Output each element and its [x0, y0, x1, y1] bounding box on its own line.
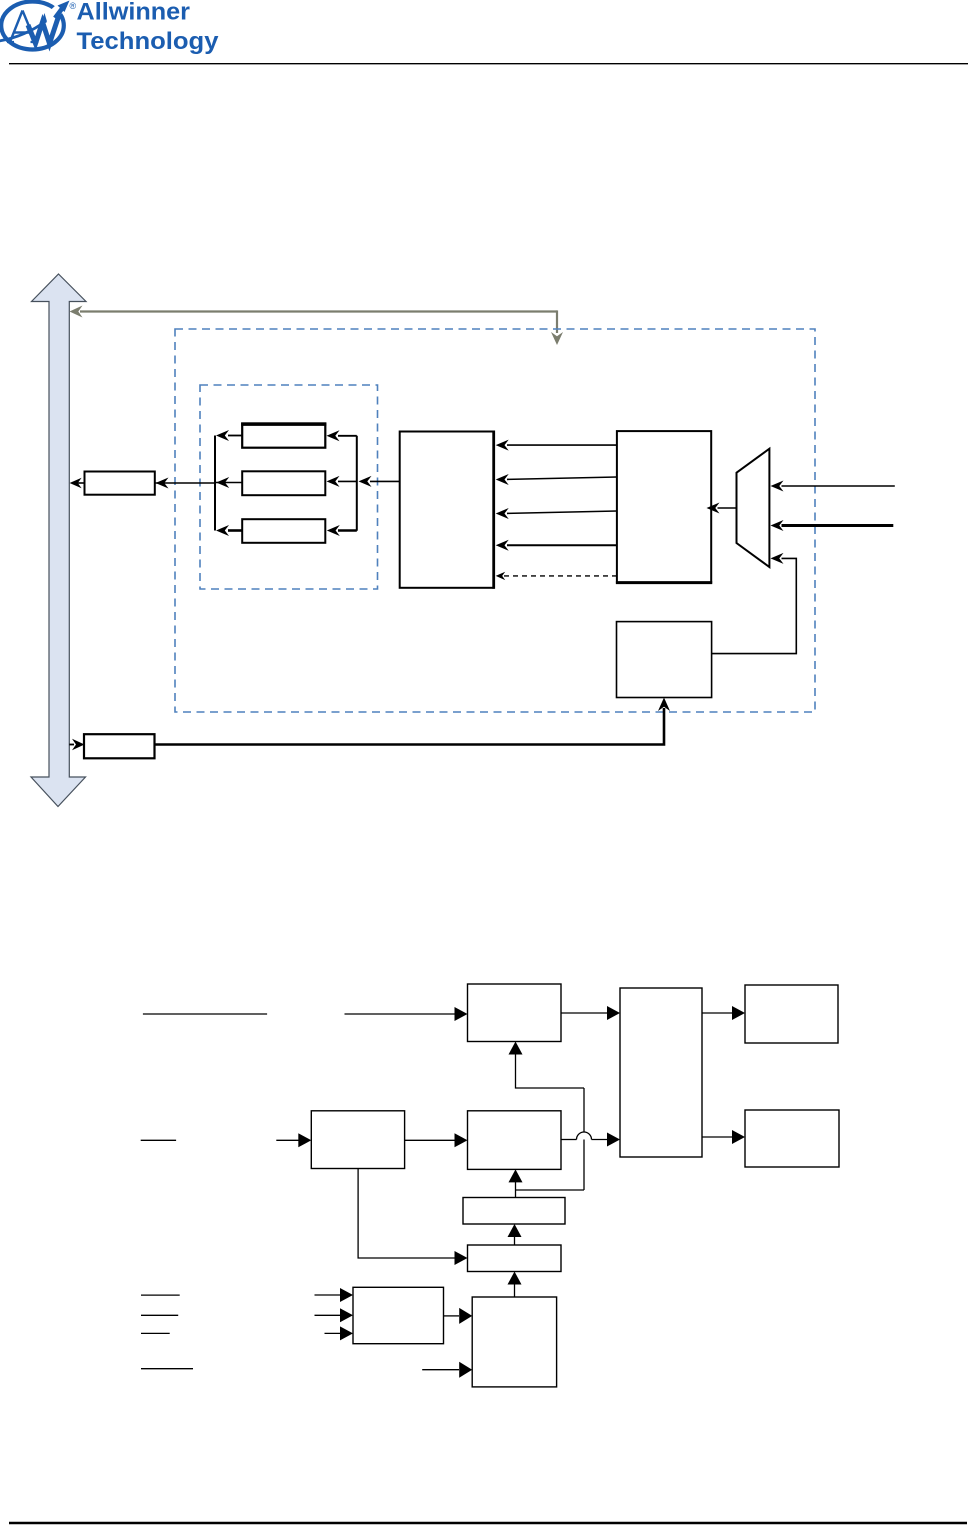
wire B8 to BB — [514, 1283, 516, 1297]
input combiner box B7 — [353, 1287, 444, 1343]
wire right bus to row3 rect — [338, 529, 357, 532]
system bus vertical double arrow — [31, 274, 86, 807]
interface register block (left) — [85, 472, 155, 495]
wire U2 to U1 line 2 — [507, 477, 617, 479]
wire big-rect to right bus to row2 rect — [370, 480, 400, 482]
wire B4 to B5 — [702, 1012, 733, 1014]
wire lower input into B8 — [422, 1369, 459, 1371]
stub wire mid left — [141, 1139, 176, 1141]
stub wire group left 1 — [141, 1294, 180, 1296]
wire row3 rect to left bus — [228, 529, 242, 532]
wire B1 to B4 — [561, 1012, 608, 1014]
inner dashed sub-module boundary — [200, 385, 378, 589]
right bus line of sub-module — [356, 436, 358, 531]
wire into B1 — [345, 1013, 456, 1015]
header rule — [9, 63, 968, 65]
clock generator block — [617, 622, 712, 698]
svg-text:Allwinner: Allwinner — [77, 0, 191, 26]
stub wire group left 3 — [141, 1332, 170, 1334]
wire system bus to bottom block — [69, 744, 74, 746]
footer rule — [9, 1522, 967, 1525]
wire from interface block to system bus — [74, 482, 85, 484]
wire external input 1 to mux — [782, 485, 895, 487]
stub wire group left 4 — [141, 1368, 193, 1370]
data register block U2 — [617, 431, 711, 582]
feedback wire top into B1 — [516, 1053, 585, 1088]
wire B3 to B4 with hop — [561, 1139, 577, 1141]
wire U2 to U1 line 3 — [507, 511, 617, 513]
output box B5 — [745, 985, 838, 1043]
thick wire bottom block to clock generator — [155, 708, 665, 745]
wire U2 to U1 line 4 — [507, 544, 617, 546]
svg-text:®: ® — [70, 1, 77, 11]
stub wire group left 2 — [141, 1314, 178, 1316]
wire into B2 — [276, 1139, 299, 1141]
gray bus-access wire with arrows — [80, 310, 557, 312]
wire input b into B7 — [315, 1314, 342, 1316]
bus interface small block (bottom) — [84, 734, 155, 758]
wire external input 2 to mux (thick) — [782, 524, 894, 527]
stub wire top left — [143, 1013, 267, 1015]
wire B2 down to BB — [358, 1169, 455, 1259]
wire row1 rect to left bus — [228, 435, 242, 437]
wire input c into B7 — [325, 1332, 342, 1334]
wire U2 to U1 line 1 — [507, 444, 617, 446]
lower diagram: stage box B1 — [468, 984, 562, 1042]
dashed wire U2 to U1 line 5 — [504, 575, 617, 577]
outer dashed module boundary — [175, 329, 815, 712]
wire B7 to B8 — [444, 1315, 460, 1317]
output box B6 — [745, 1110, 839, 1167]
control logic block U1 — [400, 432, 494, 588]
input mux (trapezoid) — [737, 449, 770, 567]
feedback wire bottom joint — [516, 1189, 585, 1191]
tall mixer box B4 — [620, 988, 702, 1157]
wire clock block to mux input 3 — [712, 558, 797, 653]
stage box B3 — [468, 1111, 562, 1170]
wire mux output to U2 — [718, 507, 737, 509]
thin box BA — [463, 1198, 565, 1225]
feedback wire vertical x584 — [583, 1088, 585, 1190]
fifo buffer row 2 — [242, 471, 325, 495]
thin box BB — [468, 1245, 562, 1272]
fifo buffer row 3 — [242, 519, 325, 543]
wire B2 to B3 — [405, 1139, 455, 1141]
wire B4 to B6 — [702, 1136, 733, 1138]
wire BA to B3 — [515, 1180, 517, 1198]
fifo buffer row 1 — [242, 423, 325, 447]
svg-text:Technology: Technology — [77, 28, 219, 55]
wire BB to BA — [514, 1236, 516, 1245]
stage box B2 — [311, 1111, 404, 1169]
wire right bus to row1 rect — [338, 435, 357, 437]
wire row2 rect to left bus and out to interface block — [216, 482, 242, 484]
wire input a into B7 — [315, 1294, 342, 1296]
left bus line of sub-module — [214, 436, 216, 531]
Allwinner logo mark — [0, 0, 77, 50]
reference box B8 — [472, 1297, 556, 1387]
